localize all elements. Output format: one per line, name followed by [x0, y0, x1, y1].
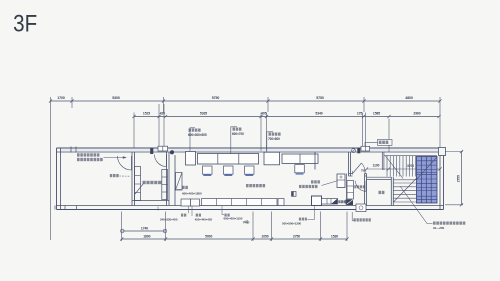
- dim row1 tick x50.5: [49, 99, 52, 102]
- dim row2 tick x165.5: [164, 115, 167, 118]
- wall wc east a: [390, 177, 392, 206]
- svg-text:1515: 1515: [143, 112, 150, 116]
- room label wc: [379, 191, 385, 194]
- note locker leader: [120, 175, 131, 177]
- dim 2755 ext top: [445, 151, 463, 153]
- label storageB leader: [191, 206, 193, 216]
- ext line row1 right: [439, 97, 441, 147]
- server box: [186, 152, 196, 166]
- wall changing-south: [132, 200, 169, 202]
- ext line row2 x164: [163, 104, 165, 150]
- panel box dark corridor: [357, 148, 360, 153]
- wall pantry north b: [349, 175, 353, 177]
- ext line row1 left: [50, 97, 52, 240]
- chair 2: [224, 166, 234, 174]
- wall wc north a: [367, 176, 392, 178]
- ext line bottom x347: [346, 212, 348, 242]
- wall wc west a: [364, 174, 366, 206]
- wall stairhall edge a: [381, 152, 383, 170]
- dim row2 tick x439: [437, 115, 440, 118]
- label sink text2: [299, 185, 318, 188]
- sink unit: [337, 174, 345, 188]
- stair stringer top: [384, 155, 437, 157]
- note alumi door line1: [77, 153, 99, 156]
- dim row2 tick x134: [132, 115, 135, 118]
- door arc pantry: [356, 181, 367, 192]
- panel circle corridor: [352, 149, 356, 153]
- wall top tick b: [75, 147, 77, 153]
- panel box duplex corridor: [361, 146, 370, 151]
- locker slash: [135, 184, 144, 195]
- pantry sink unit: [347, 181, 354, 200]
- dim row B line: [122, 238, 347, 240]
- label storageB text: [196, 214, 201, 217]
- wall pantry west: [346, 174, 348, 206]
- label server bracket: [190, 128, 195, 156]
- label sink leader: [322, 181, 337, 186]
- ext line row2 x365: [365, 113, 367, 151]
- wall stairhall edge b: [383, 152, 385, 170]
- dim 1100 line: [367, 168, 389, 170]
- dim row B tick x121.7: [120, 237, 123, 240]
- carpet label line1: [433, 222, 465, 225]
- note arrow: [104, 157, 126, 159]
- wall top outer: [57, 147, 444, 149]
- label desk text: [233, 128, 242, 131]
- svg-text:5335: 5335: [200, 112, 207, 116]
- dim row1 tick x440: [438, 99, 441, 102]
- cabinet row: [202, 199, 278, 206]
- svg-text:5300: 5300: [112, 96, 120, 100]
- label storage tall leader: [177, 189, 182, 191]
- svg-text:600×300×505: 600×300×505: [188, 133, 207, 137]
- dim row1 tick x163.5: [162, 99, 165, 102]
- desk row 1: [198, 154, 259, 165]
- svg-text:500×500×1300: 500×500×1300: [282, 221, 301, 225]
- label water heater: [354, 185, 365, 188]
- label desk bracket: [231, 127, 237, 155]
- wall bottom inner: [57, 205, 444, 207]
- closet slash: [176, 173, 183, 191]
- door 750 tickmarks: [352, 171, 354, 175]
- dim row2 tick x363.5: [362, 115, 365, 118]
- wall utility: [174, 155, 176, 206]
- label server text: [189, 129, 201, 132]
- dim row A circle left: [121, 229, 125, 233]
- dim row1 line: [51, 100, 441, 102]
- pilaster bottom-left: [54, 206, 56, 210]
- floor label office: [246, 184, 265, 187]
- svg-text:4800: 4800: [405, 96, 413, 100]
- stair landing line: [393, 179, 416, 181]
- dim row2 line: [134, 116, 439, 118]
- svg-text:5000: 5000: [205, 235, 212, 239]
- ext line row2 x261: [260, 113, 262, 152]
- svg-text:600×700: 600×700: [232, 132, 244, 136]
- stair diagonal short: [386, 156, 404, 179]
- label fire-alarm leader: [365, 143, 378, 151]
- dim row A line: [122, 230, 165, 232]
- label storageC leader: [222, 206, 224, 215]
- label sink text: [311, 180, 320, 183]
- svg-text:600×400×1850: 600×400×1850: [182, 191, 202, 195]
- svg-text:1890: 1890: [143, 235, 150, 239]
- svg-text:700×800: 700×800: [268, 137, 280, 141]
- ext line bottom x271.5: [271, 212, 273, 242]
- wall wc west b: [366, 174, 368, 206]
- wall left outer: [56, 148, 58, 210]
- svg-text:1100: 1100: [373, 164, 380, 168]
- stair diagonal up: [394, 157, 438, 202]
- wall pantry north a: [349, 173, 353, 175]
- label fire-alarm box: [378, 140, 393, 146]
- wall right outer: [443, 148, 445, 210]
- room label changing: [143, 181, 162, 184]
- svg-text:5750: 5750: [316, 96, 324, 100]
- ext line row1 x268: [267, 97, 269, 112]
- svg-text:420: 420: [160, 112, 166, 116]
- dim row1 tick x364: [362, 99, 365, 102]
- note locker label: [110, 174, 119, 177]
- ext line row2 x389: [388, 119, 390, 153]
- ext line bottom x165.5: [165, 212, 167, 242]
- wall top window tint: [60, 149, 440, 151]
- label storage tall text: [182, 186, 188, 189]
- wall bottom outer: [57, 209, 444, 211]
- wall leftroom-right b: [134, 152, 136, 206]
- dim row B tick x165.5: [164, 237, 167, 240]
- wall changing-right a: [166, 152, 168, 206]
- cabinet end box: [278, 199, 284, 206]
- label basin leader: [352, 212, 353, 220]
- ext line row1 x163: [163, 97, 165, 113]
- door leaf 750: [353, 163, 362, 174]
- door leaf changing: [166, 155, 168, 167]
- dim row2 tick x159: [157, 115, 160, 118]
- chair 4: [295, 165, 305, 173]
- fridge: [312, 196, 322, 206]
- door arc changing: [155, 155, 167, 167]
- basin below wall: [356, 204, 366, 212]
- panel box dark: [150, 148, 153, 154]
- wall top inner: [57, 151, 444, 153]
- dim row2 tick x261: [259, 115, 262, 118]
- ext line row1 x72: [71, 97, 73, 108]
- door arc leftroom: [118, 156, 132, 170]
- chair 3: [245, 166, 255, 174]
- svg-text:(3段): (3段): [243, 219, 249, 224]
- label storageC text: [224, 214, 229, 217]
- dim 2755 ext bottom: [445, 204, 463, 206]
- svg-text:2960: 2960: [413, 112, 420, 116]
- svg-text:455×440×455: 455×440×455: [195, 218, 213, 222]
- svg-text:2750: 2750: [293, 235, 300, 239]
- door arc 750: [362, 163, 366, 173]
- wall bottom tick a: [64, 206, 66, 210]
- svg-text:5340: 5340: [315, 112, 322, 116]
- meter box MB: [346, 200, 354, 206]
- closet shelf: [176, 173, 183, 191]
- ext line row2 x362: [362, 113, 364, 151]
- wall kitchen partial: [314, 152, 316, 170]
- dim 2755 tick top: [460, 150, 463, 153]
- locker column right: [162, 170, 168, 200]
- dim row A circle right: [163, 229, 167, 233]
- chair 1: [203, 166, 213, 174]
- cabinet small a: [181, 199, 191, 206]
- dim row1 tick x268: [266, 99, 269, 102]
- dim row B tick x271.5: [270, 237, 273, 240]
- dim 2755 tick bottom: [460, 203, 463, 206]
- svg-text:1530: 1530: [331, 235, 338, 239]
- ext line bottom x121.7: [121, 212, 123, 242]
- ext line row2 x266: [266, 113, 268, 152]
- desk row 2: [282, 154, 318, 163]
- dim 2755 line: [461, 152, 463, 205]
- wall right inner: [439, 148, 441, 210]
- dim row B tick x320.5: [319, 237, 322, 240]
- dim row2 tick x389: [387, 115, 390, 118]
- wall leftroom-right a: [131, 152, 133, 206]
- label fridge text: [299, 218, 307, 221]
- svg-text:1585: 1585: [373, 112, 380, 116]
- column top-right corner: [439, 148, 446, 156]
- svg-text:2755: 2755: [456, 175, 460, 182]
- svg-text:175: 175: [357, 112, 363, 116]
- wall top tick a: [70, 147, 72, 153]
- panel box duplex: [158, 146, 168, 151]
- svg-text:5750: 5750: [212, 96, 220, 100]
- wall bottom tick b: [76, 206, 78, 210]
- locker column: [135, 167, 141, 201]
- extinguisher box: [292, 192, 297, 197]
- ext line row1 x364: [363, 97, 365, 112]
- label storageA text: [181, 214, 186, 217]
- svg-text:91—200: 91—200: [433, 226, 444, 230]
- ext line bottom x320.5: [320, 212, 322, 242]
- dim row B tick x347: [345, 237, 348, 240]
- svg-text:1700: 1700: [57, 96, 65, 100]
- copier box: [264, 152, 280, 165]
- dim row B tick x253: [251, 237, 254, 240]
- panel circle: [170, 150, 174, 154]
- counter black triangle: [331, 199, 338, 205]
- label copier bracket: [267, 132, 273, 155]
- svg-text:1740: 1740: [141, 226, 148, 230]
- wall changing-right b: [168, 152, 170, 206]
- wall wc north b: [367, 179, 392, 181]
- label basin text: [354, 218, 371, 221]
- wall service b: [350, 152, 352, 176]
- svg-text:600×450×1150: 600×450×1150: [224, 217, 243, 221]
- dim row2 tick x266.5: [265, 115, 268, 118]
- dim 3070 line: [389, 168, 441, 170]
- dim row1 tick x72: [70, 99, 73, 102]
- wall left inner: [60, 148, 62, 210]
- label storageA leader: [188, 206, 190, 213]
- cabinet small b: [191, 199, 200, 206]
- label fire-alarm text: [379, 141, 389, 144]
- counter: [322, 199, 338, 205]
- wall service a: [348, 152, 350, 176]
- label copier text: [269, 133, 281, 136]
- ext line bottom x253: [252, 212, 254, 242]
- wall wc east b: [392, 177, 394, 206]
- note alumi door line2: [77, 158, 103, 161]
- ext line row2 x134: [133, 113, 135, 149]
- carpet hatched area: [417, 157, 438, 204]
- stair diagonal up over carpet: [417, 157, 438, 179]
- svg-text:3F: 3F: [13, 10, 37, 37]
- svg-text:3070: 3070: [407, 164, 414, 168]
- label M1025: [338, 200, 348, 203]
- door leaf leftroom: [131, 156, 133, 170]
- label fridge leader: [307, 206, 314, 220]
- ext line row2 x159: [158, 104, 160, 150]
- svg-text:240×330×455: 240×330×455: [160, 218, 178, 222]
- stair upper treads: [386, 156, 388, 177]
- stair lower treads: [393, 182, 416, 184]
- svg-text:405: 405: [261, 112, 267, 116]
- svg-text:1050: 1050: [261, 235, 268, 239]
- carpet label leader: [400, 186, 433, 224]
